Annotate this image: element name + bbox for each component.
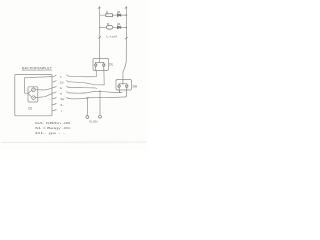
DA contact 1 xyxy=(118,84,121,93)
junction wire4 tap xyxy=(99,91,101,93)
wire row2 to DL xyxy=(70,70,105,85)
right supply rail vertical xyxy=(123,7,127,80)
lamp L1 xyxy=(32,88,36,92)
wire row3 stub xyxy=(70,87,97,88)
wire row4 xyxy=(70,91,123,93)
left supply rail vertical xyxy=(99,7,101,59)
junction rail2 left xyxy=(99,27,100,28)
rail 1 wire xyxy=(100,14,127,16)
svg-text:ul: ul xyxy=(60,91,63,95)
relay DA box xyxy=(116,80,132,91)
junction DA left lead xyxy=(119,92,121,94)
title underline xyxy=(22,69,52,71)
svg-text:01: 01 xyxy=(117,10,121,14)
right rail tick xyxy=(125,37,127,39)
diode V1 xyxy=(117,14,120,17)
svg-text:L+off: L+off xyxy=(106,34,117,38)
connector pin row6 xyxy=(52,103,56,104)
wire row1 internal feed xyxy=(25,77,53,94)
junction wire5 tap xyxy=(87,97,89,99)
connector pin row3 xyxy=(52,86,56,87)
connector pin row5 xyxy=(52,97,56,98)
connector pin row4 xyxy=(52,92,56,93)
mating hook row4 xyxy=(67,92,70,93)
svg-text:01: 01 xyxy=(117,22,121,26)
wire down to terminal X1 xyxy=(86,98,88,116)
right rail top hook xyxy=(125,7,127,9)
svg-text:y: y xyxy=(60,75,62,79)
DA internal bar xyxy=(119,80,127,84)
svg-text:DA: DA xyxy=(133,84,138,88)
svg-text:DL: ge - -: DL: ge - - xyxy=(35,131,65,135)
svg-text:5~: 5~ xyxy=(61,103,65,107)
mating hook row3 xyxy=(67,86,70,87)
connector pin row2 xyxy=(52,81,56,82)
terminal X2 circle xyxy=(99,115,102,118)
svg-text:tu: tu xyxy=(60,86,63,90)
DL internal bar xyxy=(96,58,104,62)
lamp/fuse E1 xyxy=(106,25,113,29)
mating hook row2 xyxy=(67,81,70,82)
crease line bottom xyxy=(2,141,146,143)
connector pin row7 xyxy=(52,109,56,110)
svg-text:t: t xyxy=(61,109,62,113)
lamp L2 xyxy=(32,96,36,100)
svg-text:DA: GB/bn -06: DA: GB/bn -06 xyxy=(35,121,71,125)
svg-text:GL.BN.: GL.BN. xyxy=(89,119,98,123)
DL contact 2 xyxy=(103,62,105,70)
left rail tick xyxy=(99,37,101,39)
wire lamp1 out xyxy=(35,88,52,90)
junction DA feed xyxy=(122,83,124,85)
wire lamp2 out xyxy=(35,94,52,98)
svg-text:1/2: 1/2 xyxy=(60,80,64,84)
DA contact 2 xyxy=(125,84,128,97)
terminal X1 circle xyxy=(86,116,89,119)
wire down to terminal X2 xyxy=(99,91,101,115)
wire row1 to DL xyxy=(70,70,97,76)
wire split to lamps xyxy=(28,90,32,97)
svg-text:C6: C6 xyxy=(28,107,32,111)
rail 2 wire xyxy=(100,26,127,28)
resistor R1 xyxy=(106,14,113,17)
svg-text:61 = Betgy -0C: 61 = Betgy -0C xyxy=(35,126,72,130)
junction rail2 right xyxy=(126,27,128,29)
mating hook row1 xyxy=(67,75,70,76)
mating hook row5 xyxy=(67,97,70,98)
panel outer box xyxy=(15,75,52,116)
DL contact 1 xyxy=(95,62,97,70)
relay DL box xyxy=(93,58,109,70)
svg-text:5w: 5w xyxy=(61,97,66,101)
junction rail1 right xyxy=(126,14,128,16)
connector pin row1 xyxy=(52,75,56,76)
left rail top hook xyxy=(98,7,100,9)
lamp inner box xyxy=(28,87,38,102)
wire row5 xyxy=(70,97,127,99)
svg-text:DL: DL xyxy=(109,63,113,67)
diode V2 xyxy=(117,26,120,29)
